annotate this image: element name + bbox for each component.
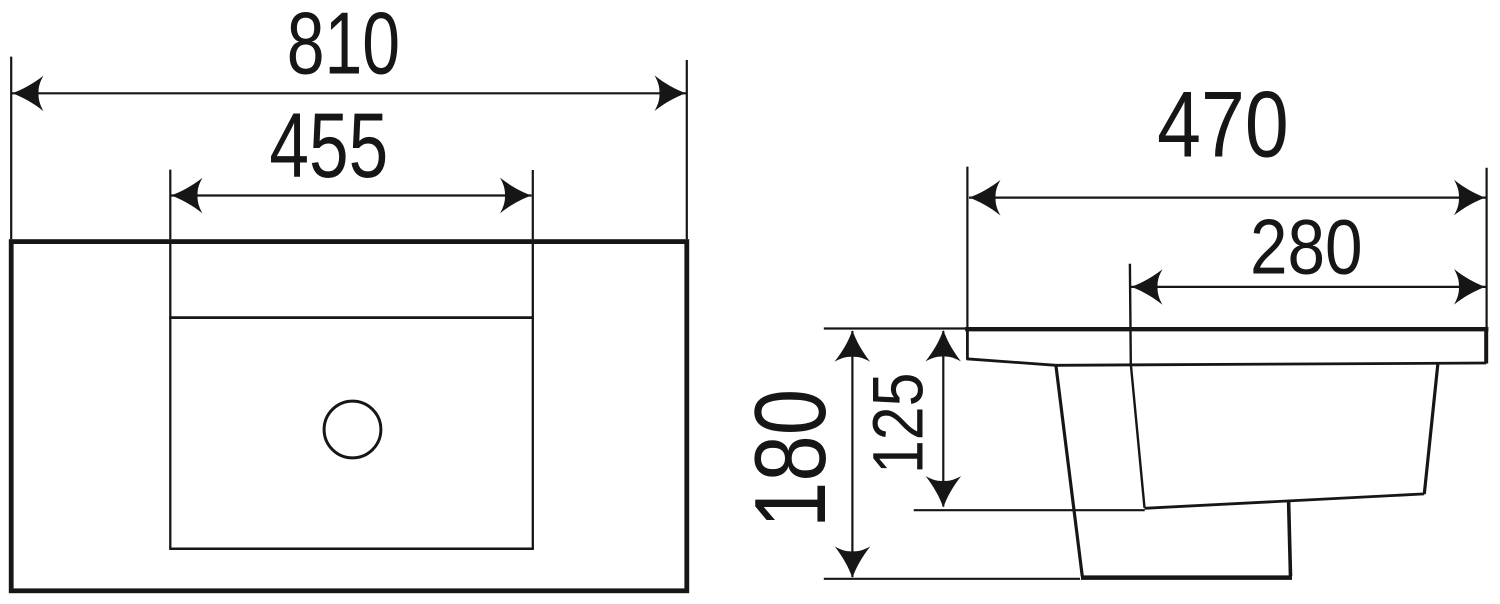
basin outer rectangle xyxy=(11,242,687,591)
dim 125 bottom extension line xyxy=(914,509,1145,511)
dim 455 arrow left xyxy=(171,178,203,214)
dim 280 line xyxy=(1131,286,1486,288)
dim 455 arrow right xyxy=(500,178,532,214)
dim 455 line xyxy=(171,194,532,196)
dim 810 arrow right xyxy=(655,75,687,111)
dim 280 arrow right xyxy=(1454,269,1486,305)
svg-text:280: 280 xyxy=(1250,204,1363,291)
dim 810 label xyxy=(287,0,400,93)
dim 455 extension line left xyxy=(169,170,171,240)
slab underside slant xyxy=(966,359,1056,366)
svg-text:125: 125 xyxy=(859,373,939,474)
slab right edge xyxy=(1484,327,1488,364)
dim 810 arrow left xyxy=(12,76,44,112)
dim 470 arrow left xyxy=(969,180,1001,216)
dim 280 extension line left xyxy=(1129,264,1132,364)
slab top edge xyxy=(965,327,1488,331)
bowl interior left slant xyxy=(1131,364,1145,508)
slab left edge xyxy=(966,327,969,359)
bowl bottom xyxy=(1145,494,1425,508)
basin inner left wall xyxy=(169,242,171,549)
dim 180/125 top extension line xyxy=(824,327,966,329)
dim 280 arrow left xyxy=(1131,269,1163,305)
dim 470 arrow right xyxy=(1454,180,1486,216)
drain block bottom xyxy=(1081,575,1292,580)
svg-text:470: 470 xyxy=(1157,73,1288,177)
svg-text:810: 810 xyxy=(287,0,400,93)
bowl outer left wall xyxy=(1056,365,1082,576)
dim 180 arrow bottom xyxy=(835,546,871,578)
dim 180 bottom extension line xyxy=(824,578,1080,580)
dim 125 line xyxy=(942,331,944,507)
dim 470 label xyxy=(1157,73,1288,177)
bowl right wall xyxy=(1424,364,1438,494)
svg-text:455: 455 xyxy=(269,95,388,197)
dim 810 extension line left xyxy=(10,57,12,240)
drain hole circle xyxy=(324,401,381,458)
dim 470 extension line right xyxy=(1485,168,1487,329)
dim 180 label (rotated) xyxy=(733,389,846,528)
dim 810 extension line right xyxy=(686,60,688,239)
svg-text:180: 180 xyxy=(733,389,846,528)
basin inner bottom wall xyxy=(169,548,534,551)
dim 470 extension line left xyxy=(966,167,968,329)
dim 470 line xyxy=(969,197,1486,199)
dim 280 label xyxy=(1250,204,1363,291)
dim 180 line xyxy=(851,331,853,577)
dim 125 arrow bottom xyxy=(926,476,962,508)
basin shelf line xyxy=(169,316,534,319)
dim 180 arrow top xyxy=(835,330,871,362)
dim 455 extension line right xyxy=(532,170,534,239)
dim 125 arrow top xyxy=(925,330,961,362)
drain block right wall xyxy=(1289,502,1291,577)
basin inner right wall xyxy=(532,242,534,549)
dim 810 line xyxy=(12,92,686,94)
slab bottom edge xyxy=(1056,363,1486,365)
dim 455 label xyxy=(269,95,388,197)
dim 125 label (rotated) xyxy=(859,373,939,474)
